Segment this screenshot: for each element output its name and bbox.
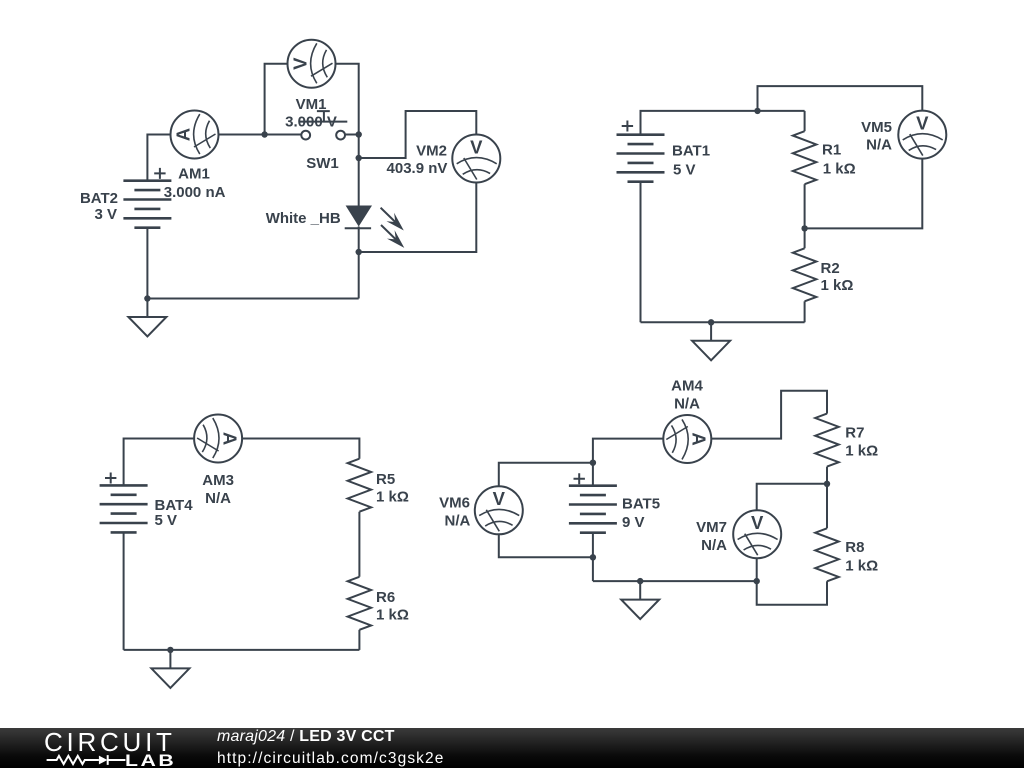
wire R6 bottom lead [358,630,360,650]
wire VM1 right lead down to LED [335,64,359,206]
svg-text:1 kΩ: 1 kΩ [821,277,854,294]
junction VM7 bottom node [754,578,760,584]
plus sign BAT1 [622,121,633,132]
voltmeter VM6 [475,486,523,534]
battery BAT4 [100,485,148,532]
battery BAT2 [123,181,171,228]
wire ground stub TR [710,322,712,341]
wire VM1 left lead [265,64,288,135]
resistor R6 [348,577,372,630]
svg-text:SW1: SW1 [306,155,339,172]
resistor R7 [815,414,839,467]
svg-text:VM6: VM6 [439,494,470,511]
svg-text:9 V: 9 V [622,514,645,531]
wire node to VM2 top [359,111,477,158]
wire R8 top lead [826,484,828,529]
wire AM4 to R7 [711,391,827,439]
wire R1/R2 node to VM5 bottom [805,158,923,228]
wire BAT4 top rail to AM3 [124,439,195,486]
svg-text:R8: R8 [845,539,864,556]
wire AM1 to SW1 [218,134,301,136]
LED White _HB [345,206,405,248]
svg-text:A: A [219,432,240,445]
svg-text:5 V: 5 V [673,162,696,179]
svg-text:N/A: N/A [674,395,700,412]
junction BL ground node [167,647,173,653]
wire ground stub [146,299,148,318]
svg-text:1 kΩ: 1 kΩ [376,607,409,624]
wire VM7 bottom lead [756,558,758,581]
voltmeter VM2 [452,135,500,183]
wire BAT5 top lead [593,439,663,486]
plus sign BAT5 [574,473,585,484]
wire battery BAT2 top to AM1 [147,135,171,181]
battery BAT1 [617,135,665,182]
wire ground stub BL [169,650,171,669]
svg-text:V: V [916,112,929,133]
resistor R2 [793,248,817,301]
wire AM3 to R5 [242,439,359,459]
ground (BAT1) [692,341,730,361]
CircuitLab logo text CIRCUIT [44,727,176,758]
wire LED cathode down to bottom rail [358,227,360,299]
svg-text:R6: R6 [376,589,395,606]
svg-text:White _HB: White _HB [266,210,341,227]
junction VM6 bottom node [590,554,596,560]
junction BAT1 top rail [754,108,760,114]
svg-text:N/A: N/A [701,537,727,554]
wire R7 bottom lead [826,467,828,484]
svg-text:VM5: VM5 [861,119,892,136]
wire VM2 bottom to LED cathode node [359,182,477,252]
wire R2 top lead [804,228,806,248]
wire BAT1 bottom lead [640,181,642,322]
svg-text:1 kΩ: 1 kΩ [823,161,856,178]
wire VM6 top lead [499,463,593,487]
plus sign BAT2 [154,168,165,179]
svg-text:V: V [470,136,483,157]
svg-text:1 kΩ: 1 kΩ [845,558,878,575]
footer bar [0,728,1024,768]
junction BR ground node [637,578,643,584]
svg-text:R2: R2 [821,260,840,277]
voltmeter VM5 [898,111,946,159]
CircuitLab logo resistor-diode squiggle [44,752,128,768]
svg-text:A: A [689,432,710,445]
junction SW1 right node [356,131,362,137]
junction VM2 tap node [356,155,362,161]
footer title line [217,728,395,746]
svg-text:1 kΩ: 1 kΩ [376,489,409,506]
svg-text:VM2: VM2 [416,142,447,159]
ground (BAT5) [621,600,659,620]
wire VM5 top lead [758,86,923,111]
svg-text:AM3: AM3 [202,472,234,489]
footer url line [217,750,444,768]
wire SW1 right terminal to node [345,134,359,136]
ammeter AM4 [663,415,711,463]
svg-text:AM1: AM1 [178,165,210,182]
wire R1 top lead [804,111,806,131]
junction AM1/VM1 node [261,131,267,137]
junction BAT5 top node [590,460,596,466]
svg-text:403.9 nV: 403.9 nV [387,160,448,177]
svg-text:N/A: N/A [445,513,471,530]
CircuitLab logo text LAB [125,751,176,771]
wire R2 bottom lead [804,301,806,322]
wire R7 node to VM7 top [757,484,827,511]
svg-text:R5: R5 [376,471,395,488]
junction TR ground node [708,319,714,325]
ground (BAT4) [151,668,189,688]
junction R1 bottom node [801,225,807,231]
svg-text:V: V [751,512,764,533]
svg-text:A: A [172,128,193,141]
svg-text:5 V: 5 V [155,512,178,529]
ammeter AM1 [171,111,219,159]
svg-text:AM4: AM4 [671,378,703,395]
svg-text:N/A: N/A [205,490,231,507]
ammeter AM3 [194,415,242,463]
voltmeter VM7 [733,510,781,558]
wire bottom rail bottom-left circuit [124,649,360,651]
voltmeter VM1 [288,40,336,88]
svg-text:N/A: N/A [866,137,892,154]
wire ground stub BR [639,581,641,600]
svg-text:3.000 nA: 3.000 nA [164,184,226,201]
svg-text:R7: R7 [845,424,864,441]
wire VM6 bottom lead [499,534,593,557]
wire BAT1 top rail [641,111,805,135]
junction R7/R8 node [824,481,830,487]
wire BAT4 bottom lead [123,532,125,650]
svg-text:BAT1: BAT1 [672,143,710,160]
resistor R8 [815,528,839,581]
junction LED cathode node [356,249,362,255]
battery BAT5 [569,486,617,533]
svg-text:V: V [289,57,310,70]
svg-text:1 kΩ: 1 kΩ [845,443,878,460]
plus sign BAT4 [105,473,116,484]
svg-text:VM7: VM7 [696,519,727,536]
wire battery BAT2 bottom lead [146,228,148,299]
svg-text:3 V: 3 V [94,206,117,223]
resistor R5 [348,459,372,512]
svg-text:V: V [493,488,506,509]
wire R1 bottom lead [804,184,806,228]
resistor R1 [793,131,817,184]
wire BAT5 bottom lead [592,533,594,581]
wire bottom rail top-left circuit [147,298,358,300]
wire bottom rail bottom-right circuit [593,580,757,582]
junction bottom-left of BAT2 [144,295,150,301]
ground (BAT2) [128,317,166,337]
svg-text:BAT2: BAT2 [80,190,118,207]
wire R5 to R6 [358,512,360,577]
wire R8 bottom lead [757,581,827,605]
switch SW1 [300,111,347,139]
svg-text:R1: R1 [822,142,841,159]
wire bottom rail top-right circuit [641,321,805,323]
svg-text:BAT5: BAT5 [622,496,660,513]
